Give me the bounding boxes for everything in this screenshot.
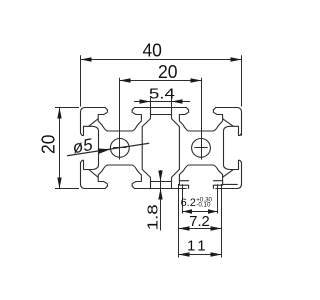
corner web bottom-left	[89, 170, 99, 178]
svg-text:11: 11	[187, 238, 209, 255]
svg-text:20: 20	[158, 62, 178, 82]
central void ceiling line	[151, 114, 172, 116]
left end T-slot cavity	[81, 126, 99, 169]
dim 40 line	[81, 59, 242, 61]
bottom-right slot lip shelf line	[223, 183, 238, 185]
bottom-right T-slot cavity (dimensioned, square hooks)	[179, 165, 222, 175]
center line right hole horizontal tick	[194, 147, 207, 149]
hole circle left (ø5)	[110, 139, 129, 158]
svg-text:6.2: 6.2	[181, 197, 196, 209]
dim 7.2 / 11 extension lines	[178, 184, 180, 258]
svg-text:7.2: 7.2	[189, 214, 210, 230]
svg-text:-0.10: -0.10	[196, 202, 211, 209]
dim 5.4 line with outside arrows	[134, 101, 190, 103]
svg-text:5.4: 5.4	[149, 86, 175, 103]
center line right hole (vertical, also ext for top 20 dim)	[201, 78, 203, 160]
bottom-left T-slot cavity	[98, 165, 141, 189]
dim 6.2 extension lines	[182, 184, 184, 213]
dim 20 left extension lines	[55, 107, 79, 109]
dim 20 top line	[120, 80, 202, 82]
central void outline	[142, 108, 150, 189]
svg-text:1.8: 1.8	[145, 204, 162, 230]
dim 40 extension lines	[80, 55, 82, 106]
central void floor line	[151, 181, 172, 183]
hole circle right (ø5)	[192, 139, 211, 158]
dim 7.2 line	[179, 228, 222, 230]
right end T-slot cavity	[224, 126, 242, 169]
top-right T-slot cavity	[179, 108, 222, 132]
corner web top-left	[89, 119, 99, 127]
dim 6.2 line	[183, 211, 218, 213]
corner web top-right	[223, 119, 234, 127]
center line left hole (vertical, also ext for top 20 dim)	[119, 78, 121, 160]
svg-text:40: 40	[142, 41, 162, 61]
dim 20 left line	[59, 108, 61, 189]
svg-text:ø5: ø5	[71, 135, 94, 157]
corner web bottom-right	[223, 170, 234, 178]
top-left T-slot cavity	[98, 108, 141, 132]
dim 5.4 extension lines	[150, 98, 152, 108]
center line left hole horizontal tick	[113, 147, 126, 149]
svg-text:20: 20	[38, 134, 58, 154]
dim ø5 leader line	[67, 143, 149, 156]
profile outer outline	[81, 108, 106, 113]
dim 1.8 line	[160, 170, 162, 231]
dim 11 line	[179, 254, 222, 256]
